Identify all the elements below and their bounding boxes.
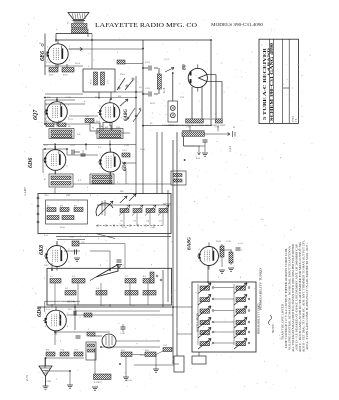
svg-text:2 POWER SUPPLY CIRCUIT FOR A-: 2 POWER SUPPLY CIRCUIT FOR A-C OPERATED … — [162, 124, 226, 127]
svg-text:C-23: C-23 — [130, 304, 136, 307]
svg-text:R-5: R-5 — [143, 276, 146, 278]
svg-text:ALL VOLTAGES MEASURED TO CHASS: ALL VOLTAGES MEASURED TO CHASSIS WITH 10… — [292, 244, 295, 352]
svg-text:R-16: R-16 — [196, 158, 200, 160]
svg-text:SCHEM 390-C31 GANG 4890: SCHEM 390-C31 GANG 4890 — [270, 43, 274, 121]
svg-text:THAN THE ONE LISTED: THAN THE ONE LISTED — [281, 304, 284, 340]
svg-text:2: 2 — [44, 153, 45, 155]
svg-text:C-15: C-15 — [74, 350, 78, 352]
svg-text:2: 2 — [121, 105, 122, 107]
svg-text:L-1: L-1 — [50, 276, 53, 278]
svg-text:4a: 4a — [234, 126, 236, 128]
svg-text:C-4: C-4 — [146, 221, 149, 223]
svg-text:R-12a: R-12a — [126, 379, 133, 382]
svg-text:L-9: L-9 — [78, 180, 81, 182]
svg-text:SW-1: SW-1 — [120, 73, 126, 76]
svg-text:LINE VOLTAGE 117 V A-C OUTPUT: LINE VOLTAGE 117 V A-C OUTPUT METER ACRO… — [285, 248, 288, 348]
svg-text:OSC: OSC — [44, 264, 49, 267]
svg-text:C-22: C-22 — [145, 87, 151, 90]
svg-text:OSC: OSC — [116, 126, 121, 129]
svg-text:80: 80 — [182, 64, 188, 70]
svg-text:L-2: L-2 — [72, 276, 75, 278]
svg-text:R-2: R-2 — [60, 205, 63, 207]
svg-text:C-21: C-21 — [145, 61, 151, 64]
svg-text:C-19: C-19 — [163, 345, 167, 347]
svg-text:ADJ A - TURN GANG COND. PLATES: ADJ A - TURN GANG COND. PLATES FULLY IN … — [306, 245, 309, 350]
svg-text:2: 2 — [46, 117, 47, 119]
svg-text:6A8G: 6A8G — [187, 237, 193, 250]
svg-text:R-1: R-1 — [47, 205, 50, 207]
svg-text:VOLUME CONTROL AT MAXIMUM - NO: VOLUME CONTROL AT MAXIMUM - NO SIGNAL IN… — [288, 246, 291, 350]
svg-text:C-20: C-20 — [120, 332, 126, 335]
svg-text:6Q7: 6Q7 — [33, 109, 39, 120]
svg-text:R-7: R-7 — [46, 121, 49, 123]
svg-text:C-2: C-2 — [120, 221, 123, 223]
svg-text:R-14: R-14 — [75, 62, 81, 65]
svg-text:2: 2 — [68, 262, 69, 264]
svg-text:AVC: AVC — [44, 194, 49, 197]
svg-text:C-31: C-31 — [238, 242, 244, 245]
svg-text:NOTE:: NOTE: — [271, 324, 275, 333]
svg-text:ADJ D - I.F. PEAKED AT 456 KC: ADJ D - I.F. PEAKED AT 456 KC USE DUMMY … — [295, 243, 298, 350]
svg-text:R-19: R-19 — [150, 102, 156, 105]
svg-text:R-11: R-11 — [121, 350, 125, 352]
svg-text:C-8: C-8 — [96, 288, 99, 290]
svg-text:R-20: R-20 — [216, 240, 222, 243]
svg-text:R-12: R-12 — [145, 350, 149, 352]
svg-text:OSCILLATOR: OSCILLATOR — [196, 312, 200, 332]
svg-text:2: 2 — [121, 118, 122, 120]
svg-text:N: N — [92, 127, 94, 130]
svg-text:T-17075: T-17075 — [94, 381, 103, 384]
svg-text:GND: GND — [46, 380, 51, 383]
svg-text:C-30: C-30 — [226, 240, 232, 243]
svg-text:ADJ B - SET DIAL TO 1400 KC. A: ADJ B - SET DIAL TO 1400 KC. ADJ. ANT. T… — [302, 240, 305, 352]
svg-text:C-24: C-24 — [229, 146, 232, 152]
svg-text:C-14: C-14 — [60, 350, 64, 352]
svg-text:6K8: 6K8 — [39, 245, 45, 255]
svg-text:L-6a: L-6a — [99, 126, 103, 128]
svg-text:L-5a: L-5a — [50, 126, 54, 128]
svg-text:2: 2 — [45, 313, 46, 315]
svg-text:6D6: 6D6 — [28, 158, 34, 168]
svg-text:2: 2 — [219, 249, 220, 251]
svg-text:2: 2 — [68, 249, 69, 251]
svg-text:R-18: R-18 — [163, 87, 166, 93]
svg-text:C-5: C-5 — [159, 221, 162, 223]
svg-text:Z-75: Z-75 — [25, 375, 29, 381]
svg-text:DET: DET — [66, 194, 71, 197]
svg-text:2: 2 — [68, 117, 69, 119]
svg-text:R-11: R-11 — [140, 354, 145, 357]
svg-text:R-3: R-3 — [74, 205, 77, 207]
svg-text:J-1467: J-1467 — [23, 187, 27, 196]
svg-text:R-8: R-8 — [58, 121, 61, 123]
svg-text:R-9: R-9 — [46, 350, 49, 352]
svg-text:47: 47 — [44, 179, 46, 181]
svg-text:C-11: C-11 — [85, 116, 89, 118]
svg-text:C-18: C-18 — [46, 61, 52, 64]
svg-text:ADJ C - ROCK GANG AT 600 KC R: ADJ C - ROCK GANG AT 600 KC RE-ADJ PADDE… — [299, 242, 302, 352]
svg-text:PERMEABILITY TUNED: PERMEABILITY TUNED — [258, 303, 261, 334]
svg-text:L-3: L-3 — [65, 288, 68, 290]
svg-text:R-22: R-22 — [100, 304, 106, 307]
svg-text:C-3: C-3 — [133, 221, 136, 223]
svg-text:2: 2 — [67, 153, 68, 155]
svg-text:2: 2 — [100, 155, 101, 157]
svg-text:C-7: C-7 — [125, 276, 128, 278]
svg-text:R-10: R-10 — [140, 148, 146, 151]
svg-text:LAFAYETTE RADIO MFG. CO: LAFAYETTE RADIO MFG. CO — [95, 22, 197, 29]
svg-text:6D6: 6D6 — [37, 307, 43, 317]
